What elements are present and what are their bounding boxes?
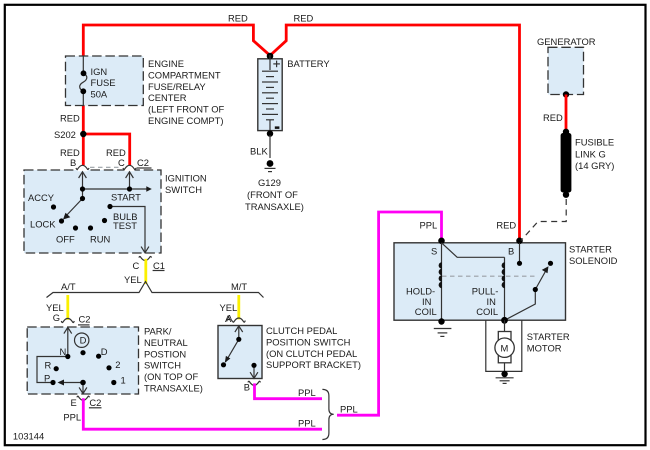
- svg-text:TEST: TEST: [113, 220, 137, 231]
- svg-text:GENERATOR: GENERATOR: [537, 36, 596, 47]
- svg-text:M/T: M/T: [231, 281, 247, 292]
- svg-text:NEUTRAL: NEUTRAL: [144, 337, 188, 348]
- svg-text:START: START: [111, 192, 141, 203]
- svg-text:TRANSAXLE): TRANSAXLE): [245, 201, 304, 212]
- svg-text:C: C: [118, 157, 125, 168]
- svg-text:IGN: IGN: [91, 66, 108, 77]
- svg-text:FUSE/RELAY: FUSE/RELAY: [148, 81, 206, 92]
- svg-text:(LEFT FRONT OF: (LEFT FRONT OF: [148, 104, 224, 115]
- svg-text:C2: C2: [137, 157, 149, 168]
- svg-text:BLK: BLK: [250, 146, 268, 157]
- svg-text:P: P: [44, 372, 50, 383]
- svg-text:(ON TOP OF: (ON TOP OF: [144, 371, 198, 382]
- svg-text:ENGINE: ENGINE: [148, 58, 184, 69]
- svg-text:S: S: [431, 246, 437, 257]
- svg-text:PPL: PPL: [298, 387, 316, 398]
- svg-text:IGNITION: IGNITION: [165, 173, 207, 184]
- svg-text:PPL: PPL: [340, 404, 358, 415]
- svg-text:C2: C2: [79, 313, 91, 324]
- svg-text:COMPARTMENT: COMPARTMENT: [148, 69, 221, 80]
- svg-text:FUSIBLE: FUSIBLE: [575, 137, 614, 148]
- svg-text:MOTOR: MOTOR: [527, 343, 562, 354]
- svg-text:RED: RED: [228, 13, 248, 24]
- svg-text:103144: 103144: [13, 431, 44, 442]
- svg-text:LINK G: LINK G: [575, 148, 606, 159]
- svg-text:E: E: [71, 397, 77, 408]
- svg-text:D: D: [101, 346, 108, 357]
- svg-text:(14 GRY): (14 GRY): [575, 160, 614, 171]
- svg-text:(FRONT OF: (FRONT OF: [247, 189, 298, 200]
- svg-text:SWITCH: SWITCH: [165, 184, 202, 195]
- svg-text:POSITION SWITCH: POSITION SWITCH: [266, 336, 350, 347]
- svg-text:BATTERY: BATTERY: [287, 58, 330, 69]
- svg-text:STARTER: STARTER: [569, 244, 612, 255]
- svg-text:C1: C1: [153, 260, 165, 271]
- svg-text:COIL: COIL: [476, 306, 498, 317]
- svg-text:N: N: [60, 346, 67, 357]
- svg-text:A: A: [225, 313, 232, 324]
- svg-text:POSTION: POSTION: [144, 348, 186, 359]
- svg-text:C: C: [133, 260, 140, 271]
- svg-text:RUN: RUN: [90, 234, 110, 245]
- svg-text:PPL: PPL: [420, 219, 438, 230]
- svg-text:A/T: A/T: [61, 281, 76, 292]
- svg-text:ACCY: ACCY: [28, 192, 55, 203]
- svg-text:STARTER: STARTER: [527, 331, 570, 342]
- svg-text:RED: RED: [496, 219, 516, 230]
- svg-text:RED: RED: [543, 112, 563, 123]
- svg-text:SWITCH: SWITCH: [144, 360, 181, 371]
- svg-text:OFF: OFF: [56, 234, 75, 245]
- svg-text:G129: G129: [258, 177, 281, 188]
- svg-text:ENGINE COMPT): ENGINE COMPT): [148, 115, 224, 126]
- svg-text:CLUTCH PEDAL: CLUTCH PEDAL: [266, 325, 337, 336]
- svg-text:50A: 50A: [91, 89, 108, 100]
- svg-text:2: 2: [115, 359, 120, 370]
- svg-text:COIL: COIL: [415, 306, 437, 317]
- svg-text:PPL: PPL: [63, 412, 81, 423]
- svg-text:CENTER: CENTER: [148, 92, 187, 103]
- svg-text:PARK/: PARK/: [144, 326, 172, 337]
- svg-text:(ON CLUTCH PEDAL: (ON CLUTCH PEDAL: [266, 348, 357, 359]
- svg-text:YEL: YEL: [124, 274, 142, 285]
- svg-text:S202: S202: [54, 129, 76, 140]
- svg-text:D: D: [80, 334, 87, 345]
- svg-text:B: B: [244, 382, 250, 393]
- svg-text:LOCK: LOCK: [30, 219, 56, 230]
- svg-text:B: B: [70, 157, 76, 168]
- svg-text:PPL: PPL: [298, 418, 316, 429]
- svg-text:G: G: [53, 312, 60, 323]
- svg-text:RED: RED: [60, 112, 80, 123]
- svg-text:M: M: [501, 343, 509, 354]
- svg-text:1: 1: [121, 374, 126, 385]
- svg-text:B: B: [508, 246, 514, 257]
- svg-text:R: R: [45, 359, 52, 370]
- svg-text:FUSE: FUSE: [91, 77, 116, 88]
- svg-text:C2: C2: [89, 397, 101, 408]
- svg-text:TRANSAXLE): TRANSAXLE): [144, 383, 203, 394]
- svg-text:YEL: YEL: [220, 302, 238, 313]
- svg-text:RED: RED: [294, 13, 314, 24]
- svg-text:SUPPORT BRACKET): SUPPORT BRACKET): [266, 359, 361, 370]
- svg-text:SOLENOID: SOLENOID: [569, 255, 618, 266]
